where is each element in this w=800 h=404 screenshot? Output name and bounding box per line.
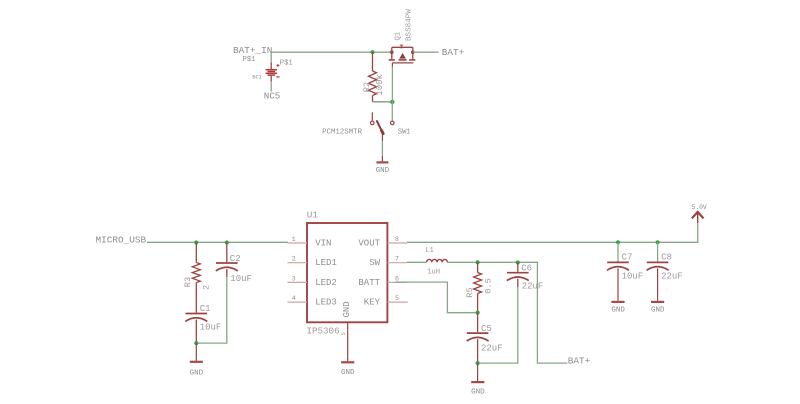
wire Q1 drain to BAT+ [413,51,439,53]
svg-text:KEY: KEY [364,298,381,308]
node junction C1/C2 gnd [194,341,198,345]
wire BATT pin to R5 bottom [395,282,478,313]
capacitor C7 [607,242,629,300]
supply symbol 5.0V [692,204,707,223]
wire L1 to C6 and BAT+ branch [447,262,567,363]
svg-text:C2: C2 [230,254,241,264]
node junction C6 top [516,260,520,264]
pin 3 LED2 [288,281,308,283]
wire MICRO_USB to U1 pin 1 [147,241,288,243]
svg-text:22uF: 22uF [661,272,683,282]
svg-text:SW1: SW1 [398,129,411,137]
svg-text:LED2: LED2 [315,278,337,288]
svg-text:10uF: 10uF [230,274,252,284]
svg-text:MICRO_USB: MICRO_USB [96,234,147,245]
svg-text:GND: GND [611,306,625,314]
svg-text:VOUT: VOUT [358,238,380,248]
node junction BAT+_IN / R2 [370,50,374,54]
wire switch common to GND [381,141,383,156]
svg-text:P$1: P$1 [243,56,256,64]
svg-text:L1: L1 [425,247,434,255]
svg-text:LED3: LED3 [315,298,337,308]
inductor L1 [427,259,448,262]
svg-text:6: 6 [395,275,399,282]
wire BAT+_IN to Q1 source [271,51,392,53]
svg-text:R5: R5 [465,287,475,297]
wire VOUT net to 5.0V [407,223,698,242]
node junction R3 tap [194,240,198,244]
svg-text:7: 7 [395,256,399,263]
svg-text:5: 5 [395,295,399,302]
pin 2 LED1 [288,262,308,264]
pin 5 KEY [387,301,407,303]
svg-text:GND: GND [376,167,390,175]
wire battery top drop [270,52,272,62]
svg-text:BATT: BATT [358,278,380,288]
svg-text:2: 2 [292,256,296,263]
svg-text:2: 2 [201,285,211,290]
svg-text:C5: C5 [481,324,492,334]
svg-text:1: 1 [292,236,296,243]
IC U1 IP5306 [307,223,387,322]
svg-text:8: 8 [395,236,399,243]
node junction C2 tap [225,240,229,244]
svg-text:3: 3 [292,275,296,282]
svg-text:10uF: 10uF [622,272,644,282]
ground under C8 [651,302,665,315]
svg-text:10uF: 10uF [200,323,222,333]
IC GND pin lead [347,322,349,361]
svg-text:IP5306: IP5306 [307,326,340,337]
svg-text:100k: 100k [375,74,385,96]
svg-text:P$1: P$1 [280,60,293,68]
svg-text:BAT+: BAT+ [442,47,465,58]
svg-text:C8: C8 [661,253,672,263]
svg-text:1uH: 1uH [427,268,440,276]
wire R2 bottom to gate node [373,101,393,103]
svg-text:5.0V: 5.0V [692,204,707,211]
svg-text:GND: GND [651,306,665,314]
svg-text:BAT+_IN: BAT+_IN [233,45,272,56]
capacitor C8 [647,242,669,300]
svg-text:PCM12SMTR: PCM12SMTR [322,129,362,137]
ground under U1 [341,362,355,377]
resistor R5 [474,262,482,312]
svg-text:4: 4 [292,295,296,302]
wire gate down to junction [391,67,393,102]
svg-text:C7: C7 [622,253,633,263]
switch SW1 PCM12SMTR [371,102,395,141]
svg-text:BAT+: BAT+ [568,356,591,367]
node junction C7 tap [616,240,620,244]
resistor R3 [192,243,200,313]
svg-text:GND: GND [341,369,355,377]
pin 4 LED3 [288,301,308,303]
svg-text:R3: R3 [183,277,193,287]
svg-text:Q1: Q1 [394,32,402,41]
svg-text:VIN: VIN [315,238,331,248]
svg-text:C6: C6 [521,263,532,273]
svg-text:GND: GND [471,389,485,397]
pin 7 SW [387,262,407,264]
pin 8 VOUT [387,242,407,244]
ground under C7 [611,302,625,315]
wire battery bottom [270,82,272,92]
svg-text:LED1: LED1 [315,258,337,268]
svg-text:SW: SW [369,258,380,268]
wire C2 bottom [196,277,227,343]
node junction C5 gnd [476,361,480,365]
ground under C1 [190,343,204,378]
svg-text:22uF: 22uF [481,344,503,354]
wire C6 bottom to gnd rail [478,287,518,363]
svg-text:NC5: NC5 [264,90,281,101]
svg-text:GND: GND [190,370,204,378]
svg-text:22uF: 22uF [522,282,544,292]
svg-text:R2: R2 [362,82,372,92]
pin 1 VIN [288,242,308,244]
ground under SW1 [376,156,390,175]
transistor Q1 BSS84PW [389,45,416,66]
svg-text:U1: U1 [307,210,319,221]
svg-text:C1: C1 [200,304,211,314]
svg-text:BC1: BC1 [252,74,261,80]
wire SW pin to L1 [407,261,427,263]
svg-text:0.5: 0.5 [484,278,494,294]
battery BC1 [266,63,280,82]
capacitor C1 [185,314,207,344]
node junction R5 top [476,260,480,264]
node junction R5/C5 [476,311,480,315]
svg-text:5: 5 [341,332,347,335]
svg-text:BSS84PW: BSS84PW [405,9,413,41]
node junction gate / switch [390,100,394,104]
resistor R2 [369,52,377,102]
node junction C8 tap [656,240,660,244]
capacitor C5 [467,313,489,364]
capacitor C2 [216,243,238,278]
capacitor C6 [507,262,529,287]
pin 6 BATT [387,281,407,283]
ground under C5 [471,363,485,396]
svg-text:GND: GND [342,301,352,317]
